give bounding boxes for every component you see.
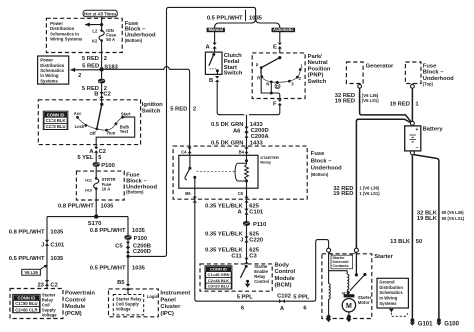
svg-text:23: 23 <box>37 283 44 289</box>
svg-text:0.5 PPL/WHT: 0.5 PPL/WHT <box>9 256 45 262</box>
svg-text:J: J <box>240 238 243 244</box>
svg-text:V6 L36: V6 L36 <box>24 270 38 275</box>
svg-text:1 (V6 LS1): 1 (V6 LS1) <box>359 191 380 196</box>
svg-text:0.5 DK GRN: 0.5 DK GRN <box>211 122 244 128</box>
svg-text:5 RED: 5 RED <box>170 106 187 112</box>
svg-text:C3=20 BLU: C3=20 BLU <box>208 284 229 289</box>
svg-text:CONN ID: CONN ID <box>47 112 65 117</box>
svg-text:A: A <box>238 210 243 216</box>
svg-text:19 RED: 19 RED <box>335 98 355 104</box>
svg-text:Battery: Battery <box>423 127 444 133</box>
svg-text:Starter: Starter <box>374 254 393 260</box>
svg-text:Acc: Acc <box>74 111 82 116</box>
svg-text:−: − <box>415 146 418 152</box>
svg-text:P100: P100 <box>101 163 115 169</box>
svg-text:(Bottom): (Bottom) <box>311 172 329 177</box>
svg-text:G100: G100 <box>444 321 459 327</box>
svg-text:CONN ID: CONN ID <box>18 296 36 301</box>
svg-text:0.5 PPL/WHT: 0.5 PPL/WHT <box>207 15 243 21</box>
svg-text:Switch: Switch <box>308 79 327 85</box>
svg-text:Automatic: Automatic <box>273 27 294 32</box>
svg-text:Start: Start <box>121 112 131 117</box>
svg-text:L2: L2 <box>92 29 98 34</box>
svg-text:(PCM): (PCM) <box>65 311 82 317</box>
svg-text:Body: Body <box>275 262 290 268</box>
svg-text:C200D: C200D <box>133 249 151 255</box>
svg-text:A: A <box>280 306 285 312</box>
svg-text:F: F <box>273 102 277 108</box>
svg-text:K2: K2 <box>92 38 98 43</box>
svg-text:C220: C220 <box>249 238 263 244</box>
svg-text:Fuse: Fuse <box>423 63 437 69</box>
svg-text:Lock: Lock <box>75 124 85 129</box>
svg-text:B: B <box>94 92 98 98</box>
svg-text:C2: C2 <box>50 283 57 289</box>
svg-text:5 PPL: 5 PPL <box>237 295 254 301</box>
svg-text:Module: Module <box>275 276 296 282</box>
svg-text:Schematics: Schematics <box>379 290 403 295</box>
svg-text:0.5 PPL/WHT: 0.5 PPL/WHT <box>90 266 126 272</box>
svg-text:1035: 1035 <box>50 230 64 236</box>
svg-text:D: D <box>276 84 279 89</box>
svg-text:Position: Position <box>308 66 331 72</box>
svg-text:1: 1 <box>415 101 419 107</box>
svg-text:Run: Run <box>107 131 116 136</box>
svg-text:H11: H11 <box>85 179 92 183</box>
svg-text:0.35 YEL/BLK: 0.35 YEL/BLK <box>205 231 243 237</box>
svg-text:Voltage: Voltage <box>116 306 131 311</box>
svg-text:0.5 DK GRN: 0.5 DK GRN <box>211 140 244 146</box>
svg-text:in Wiring: in Wiring <box>379 296 397 301</box>
svg-text:C5: C5 <box>115 243 123 249</box>
svg-text:H10: H10 <box>85 189 92 193</box>
svg-text:Fuse: Fuse <box>311 151 325 157</box>
svg-text:1035: 1035 <box>50 256 64 262</box>
svg-text:(Top): (Top) <box>423 81 434 86</box>
svg-text:G101: G101 <box>418 321 433 327</box>
svg-text:E: E <box>273 44 277 50</box>
svg-text:6: 6 <box>303 305 307 311</box>
svg-text:Logic: Logic <box>147 294 159 299</box>
svg-text:Underhood: Underhood <box>311 166 342 172</box>
svg-text:19 BLK: 19 BLK <box>417 216 438 222</box>
svg-text:Switch: Switch <box>142 108 161 114</box>
svg-text:Hot at All Times: Hot at All Times <box>84 11 117 16</box>
svg-text:Instrument: Instrument <box>160 291 190 297</box>
svg-text:B5: B5 <box>117 280 125 286</box>
svg-text:Block –: Block – <box>423 70 444 76</box>
svg-text:P100: P100 <box>134 236 148 242</box>
svg-text:0.8 PPL/WHT: 0.8 PPL/WHT <box>90 228 126 234</box>
svg-text:Systems: Systems <box>379 301 397 306</box>
svg-text:0.8 PPL/WHT: 0.8 PPL/WHT <box>58 204 94 210</box>
svg-text:5 YEL: 5 YEL <box>77 155 93 161</box>
svg-text:C2=5 BLU: C2=5 BLU <box>46 124 66 129</box>
svg-text:Neutral: Neutral <box>308 60 328 66</box>
svg-text:Distribution: Distribution <box>379 285 403 290</box>
svg-text:50: 50 <box>416 239 422 245</box>
svg-text:C2=48 BLK: C2=48 BLK <box>208 278 229 283</box>
svg-text:C102: C102 <box>277 293 291 299</box>
svg-text:(BCM): (BCM) <box>275 283 292 289</box>
svg-text:2: 2 <box>104 56 107 62</box>
svg-text:1035: 1035 <box>132 266 146 272</box>
svg-text:Wiring Systems: Wiring Systems <box>50 37 83 42</box>
svg-text:2: 2 <box>193 106 196 112</box>
svg-text:C1=80 BLU: C1=80 BLU <box>15 301 37 306</box>
svg-text:A: A <box>206 44 211 50</box>
svg-text:(IPC): (IPC) <box>160 311 174 317</box>
svg-text:3: 3 <box>291 82 294 87</box>
svg-text:625: 625 <box>249 204 259 210</box>
svg-text:Off: Off <box>90 131 97 136</box>
svg-text:P: P <box>256 63 259 68</box>
svg-text:Ignition: Ignition <box>142 102 163 108</box>
svg-text:1035: 1035 <box>101 204 115 210</box>
svg-text:CONN ID: CONN ID <box>210 267 227 272</box>
svg-text:0.8 PPL/WHT: 0.8 PPL/WHT <box>9 230 45 236</box>
svg-text:M: M <box>346 303 352 310</box>
svg-text:50 (V6 LS1): 50 (V6 LS1) <box>442 216 465 221</box>
svg-text:Systems: Systems <box>40 78 58 83</box>
svg-text:(PNP): (PNP) <box>308 73 324 79</box>
svg-text:Control: Control <box>275 269 296 275</box>
svg-text:Manual: Manual <box>209 27 223 32</box>
svg-text:A6: A6 <box>233 128 241 134</box>
svg-text:1 (V6 L36): 1 (V6 L36) <box>358 93 378 98</box>
svg-text:1: 1 <box>300 64 303 69</box>
svg-text:C2: C2 <box>103 92 110 98</box>
svg-text:Panel: Panel <box>160 297 176 303</box>
svg-text:P110: P110 <box>253 222 266 228</box>
svg-text:19 RED: 19 RED <box>390 101 410 107</box>
svg-text:Block –: Block – <box>311 158 332 164</box>
svg-text:Ground: Ground <box>379 279 395 284</box>
svg-text:Relay: Relay <box>260 160 271 165</box>
svg-text:R: R <box>257 75 260 80</box>
svg-text:Control: Control <box>65 297 86 303</box>
svg-text:Test: Test <box>120 129 129 134</box>
svg-text:Contacts: Contacts <box>332 264 348 268</box>
svg-text:C6: C6 <box>238 191 244 196</box>
svg-text:Voltage: Voltage <box>42 312 57 317</box>
svg-text:50 (V6 L36): 50 (V6 L36) <box>442 210 465 215</box>
svg-text:C1=48 GRN: C1=48 GRN <box>207 272 229 277</box>
svg-text:19 RED: 19 RED <box>333 191 353 197</box>
svg-text:625: 625 <box>249 231 259 237</box>
svg-text:2: 2 <box>78 73 81 79</box>
svg-text:B4: B4 <box>239 149 245 154</box>
svg-text:C101: C101 <box>50 242 65 248</box>
svg-text:(Bottom): (Bottom) <box>125 38 143 43</box>
svg-text:C2=80 CLR: C2=80 CLR <box>15 307 37 312</box>
svg-text:13 BLK: 13 BLK <box>390 239 411 245</box>
svg-text:Powertrain: Powertrain <box>65 291 95 297</box>
svg-text:1 (V6 L36): 1 (V6 L36) <box>359 186 379 191</box>
svg-text:5 RED: 5 RED <box>82 64 99 70</box>
svg-text:C200A: C200A <box>251 134 270 140</box>
svg-text:N: N <box>266 81 269 86</box>
svg-text:C3: C3 <box>249 254 257 260</box>
svg-text:0.35 YEL/BLK: 0.35 YEL/BLK <box>205 204 243 210</box>
svg-text:5: 5 <box>98 155 102 161</box>
svg-text:Module: Module <box>65 304 86 310</box>
svg-text:1433: 1433 <box>250 140 264 146</box>
svg-text:Cluster: Cluster <box>160 304 181 310</box>
svg-text:Motor: Motor <box>358 300 370 305</box>
svg-text:B: B <box>209 78 213 84</box>
svg-text:C11: C11 <box>231 254 242 260</box>
svg-text:10 A: 10 A <box>102 186 111 191</box>
svg-text:Park/: Park/ <box>308 54 323 60</box>
svg-text:5 PPL: 5 PPL <box>293 295 310 301</box>
svg-text:+: + <box>415 127 418 133</box>
svg-text:J: J <box>41 242 44 248</box>
svg-text:(Bottom): (Bottom) <box>126 189 144 194</box>
svg-text:B6: B6 <box>185 191 191 196</box>
svg-text:50 A: 50 A <box>106 37 115 42</box>
svg-text:Switch: Switch <box>224 71 243 77</box>
svg-text:S170: S170 <box>88 221 102 227</box>
svg-text:C1=4 BLK: C1=4 BLK <box>46 118 66 123</box>
svg-text:2: 2 <box>299 76 302 81</box>
svg-text:5 RED: 5 RED <box>82 56 99 62</box>
svg-text:6: 6 <box>241 305 245 311</box>
svg-text:C101: C101 <box>249 210 264 216</box>
svg-text:Generator: Generator <box>366 64 394 70</box>
svg-text:Control: Control <box>254 279 269 284</box>
svg-text:1 (V6 LS1): 1 (V6 LS1) <box>358 98 379 103</box>
svg-text:1035: 1035 <box>132 228 146 234</box>
svg-text:C4: C4 <box>181 149 187 154</box>
